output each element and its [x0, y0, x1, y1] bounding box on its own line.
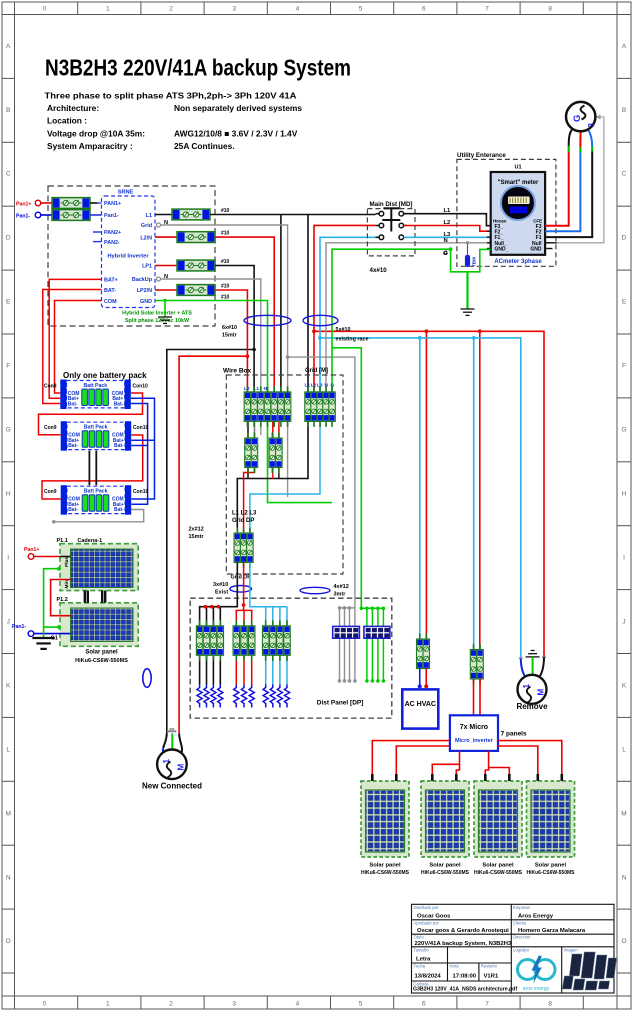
svg-text:C: C — [6, 171, 11, 178]
svg-text:Oscar Goos: Oscar Goos — [417, 914, 451, 920]
svg-text:Con9: Con9 — [44, 425, 57, 431]
svg-text:5: 5 — [359, 1001, 363, 1008]
svg-text:E: E — [622, 299, 627, 306]
svg-text:Tamaño: Tamaño — [414, 948, 430, 953]
svg-text:Dist Panel [DP]: Dist Panel [DP] — [317, 700, 364, 707]
svg-text:M: M — [621, 810, 626, 817]
svg-text:A: A — [622, 43, 627, 50]
svg-text:3: 3 — [232, 1001, 236, 1008]
svg-text:aros energy: aros energy — [523, 986, 550, 992]
svg-text:Location :: Location : — [47, 116, 87, 126]
svg-text:G: G — [572, 115, 583, 122]
svg-text:Solar panel: Solar panel — [369, 863, 401, 869]
svg-text:Exist: Exist — [215, 590, 228, 596]
svg-text:HiKu6-CS6W-550MS: HiKu6-CS6W-550MS — [361, 870, 410, 876]
svg-text:COM: COM — [104, 299, 117, 305]
svg-text:Min: Min — [64, 580, 70, 588]
svg-text:Diseñado por: Diseñado por — [414, 905, 440, 910]
svg-text:House: House — [493, 219, 507, 224]
svg-text:Oscar goos & Gerardo Arostequi: Oscar goos & Gerardo Arostequi — [417, 928, 509, 934]
svg-text:Logotipo: Logotipo — [513, 948, 530, 953]
svg-text:I: I — [7, 555, 9, 562]
svg-text:K: K — [6, 682, 11, 689]
svg-text:13/8/2024: 13/8/2024 — [415, 974, 442, 980]
svg-text:0: 0 — [43, 6, 47, 13]
svg-text:AC HVAC: AC HVAC — [405, 701, 436, 708]
svg-text:G1: G1 — [51, 636, 58, 642]
svg-text:Con9: Con9 — [44, 489, 57, 495]
svg-text:U1: U1 — [514, 165, 521, 171]
svg-text:PAN2-: PAN2- — [104, 240, 120, 246]
svg-text:7x Micro: 7x Micro — [460, 724, 488, 731]
svg-text:#10: #10 — [221, 231, 230, 237]
svg-text:L1: L1 — [444, 208, 452, 214]
svg-text:L: L — [622, 746, 626, 753]
svg-text:H: H — [622, 491, 627, 498]
svg-text:6: 6 — [422, 1001, 426, 1008]
svg-text:2: 2 — [169, 6, 173, 13]
svg-text:F: F — [622, 363, 626, 370]
svg-text:Pan1-: Pan1- — [104, 213, 119, 219]
svg-text:4x#10: 4x#10 — [370, 267, 388, 274]
svg-text:G: G — [6, 427, 11, 434]
svg-text:V1R1: V1R1 — [484, 974, 499, 980]
svg-text:Three phase to split phase ATS: Three phase to split phase ATS 3Ph,2ph->… — [45, 90, 297, 100]
svg-text:ACmeter 3phase: ACmeter 3phase — [494, 259, 542, 265]
svg-text:Pan1-: Pan1- — [16, 213, 30, 219]
svg-text:G3B2H3 120V_41A_NSDS architect: G3B2H3 120V_41A_NSDS architecture.pdf — [413, 987, 517, 993]
svg-text:1: 1 — [106, 1001, 110, 1008]
svg-text:Aprobado por: Aprobado por — [414, 921, 440, 926]
svg-text:N3B2H3 220V/41A backup System: N3B2H3 220V/41A backup System — [45, 55, 351, 81]
svg-text:Con10: Con10 — [133, 489, 149, 495]
svg-text:Solar panel: Solar panel — [85, 650, 118, 656]
svg-text:A: A — [6, 43, 11, 50]
svg-text:BackUp: BackUp — [132, 277, 153, 283]
svg-text:Aros Energy: Aros Energy — [518, 914, 554, 920]
svg-text:C: C — [622, 171, 627, 178]
svg-text:3mtr: 3mtr — [334, 592, 347, 598]
svg-text:Wire Box: Wire Box — [223, 368, 251, 375]
svg-text:2x#12: 2x#12 — [189, 527, 204, 533]
svg-text:4: 4 — [296, 1001, 300, 1008]
svg-text:Solar panel: Solar panel — [535, 863, 567, 869]
svg-text:4x#12: 4x#12 — [334, 584, 349, 590]
svg-text:System Amparacitry :: System Amparacitry : — [47, 141, 133, 151]
svg-text:L: L — [6, 746, 10, 753]
svg-text:O: O — [6, 938, 11, 945]
svg-text:Architecture:: Architecture: — [47, 103, 99, 113]
svg-text:LP1: LP1 — [142, 264, 152, 270]
svg-text:5x#10: 5x#10 — [336, 327, 351, 333]
svg-text:N: N — [444, 238, 448, 244]
svg-text:Plus: Plus — [64, 557, 70, 567]
svg-text:CFE: CFE — [533, 219, 542, 224]
svg-text:N: N — [622, 874, 627, 881]
svg-text:Con8: Con8 — [44, 384, 57, 390]
svg-text:3: 3 — [232, 6, 236, 13]
svg-text:4: 4 — [296, 6, 300, 13]
svg-text:H: H — [6, 491, 11, 498]
svg-text:Grid [M]: Grid [M] — [305, 368, 328, 374]
svg-text:7 panels: 7 panels — [501, 731, 527, 738]
svg-text:8: 8 — [548, 1001, 552, 1008]
svg-text:Remove: Remove — [516, 702, 548, 711]
svg-text:K: K — [622, 682, 627, 689]
svg-text:Cliente: Cliente — [513, 921, 527, 926]
svg-text:M: M — [5, 810, 10, 817]
svg-text:3x#10: 3x#10 — [213, 582, 228, 588]
svg-text:GND: GND — [140, 299, 152, 305]
svg-text:N: N — [6, 874, 11, 881]
svg-text:TBM: TBM — [472, 257, 477, 267]
svg-text:PAN2+: PAN2+ — [104, 230, 121, 236]
svg-text:Con10: Con10 — [133, 425, 149, 431]
svg-text:#10: #10 — [221, 295, 230, 301]
svg-text:Solar panel: Solar panel — [482, 863, 514, 869]
svg-text:Homero Garza Malacara: Homero Garza Malacara — [518, 928, 586, 934]
svg-text:Hora: Hora — [450, 964, 460, 969]
svg-text:L2: L2 — [444, 220, 451, 226]
svg-text:5: 5 — [359, 6, 363, 13]
svg-text:Grid: Grid — [141, 223, 152, 229]
svg-text:Hybrid Solar Inverter + ATS: Hybrid Solar Inverter + ATS — [122, 311, 192, 317]
svg-text:M: M — [177, 764, 186, 771]
svg-text:220V/41A backup System, N3B2H3: 220V/41A backup System, N3B2H3 — [415, 941, 512, 947]
svg-text:New Connected: New Connected — [142, 782, 202, 791]
svg-text:Direccion: Direccion — [513, 935, 531, 940]
svg-text:Imagen: Imagen — [564, 948, 579, 953]
svg-text:Cadena-1: Cadena-1 — [77, 538, 102, 544]
svg-text:1: 1 — [106, 6, 110, 13]
svg-text:Main Dist [MD]: Main Dist [MD] — [370, 201, 413, 208]
svg-text:J: J — [7, 618, 10, 625]
svg-text:Con10: Con10 — [133, 384, 149, 390]
svg-text:Only one battery pack: Only one battery pack — [63, 371, 147, 380]
svg-text:D: D — [6, 235, 11, 242]
svg-text:Grid DP: Grid DP — [231, 575, 252, 581]
svg-text:F: F — [6, 363, 10, 370]
svg-text:HiKu6-CS6W-550MS: HiKu6-CS6W-550MS — [421, 870, 470, 876]
svg-text:I: I — [623, 555, 625, 562]
svg-text:Hybrid Inverter: Hybrid Inverter — [107, 254, 149, 260]
svg-text:Grid DP: Grid DP — [232, 518, 254, 524]
svg-text:Letra: Letra — [416, 957, 431, 963]
svg-text:17:08:00: 17:08:00 — [453, 974, 477, 980]
svg-text:3: 3 — [587, 123, 596, 128]
svg-text:SRNE: SRNE — [118, 190, 134, 196]
svg-text:AWG12/10/8 ■ 3.6V / 2.3V / 1.4: AWG12/10/8 ■ 3.6V / 2.3V / 1.4V — [174, 129, 298, 139]
svg-text:Solar panel: Solar panel — [429, 863, 461, 869]
svg-text:#10: #10 — [221, 259, 230, 265]
svg-text:PAN1+: PAN1+ — [104, 201, 121, 207]
svg-text:HiKu6-CS6W-550MS: HiKu6-CS6W-550MS — [527, 870, 576, 876]
svg-text:L2/N: L2/N — [140, 235, 152, 241]
svg-text:L1: L1 — [146, 213, 152, 219]
svg-text:HiKu6-CS6W-550MS: HiKu6-CS6W-550MS — [75, 658, 128, 664]
svg-text:E: E — [6, 299, 11, 306]
svg-text:GND_: GND_ — [495, 247, 509, 253]
svg-text:G: G — [443, 251, 448, 257]
svg-text:15mtr: 15mtr — [222, 333, 238, 339]
svg-text:Utility Enterance: Utility Enterance — [457, 152, 506, 159]
svg-text:Titulo: Titulo — [414, 935, 425, 940]
svg-text:Non separately derived systems: Non separately derived systems — [174, 103, 302, 113]
svg-text:15mtr: 15mtr — [189, 534, 205, 540]
svg-text:Pan1-: Pan1- — [12, 624, 26, 630]
svg-text:Micro_inverter: Micro_inverter — [455, 738, 494, 744]
svg-text:M: M — [537, 689, 546, 696]
svg-text:Fecha: Fecha — [414, 964, 426, 969]
svg-text:25A Continues.: 25A Continues. — [174, 141, 235, 151]
svg-text:O: O — [621, 938, 626, 945]
svg-text:Pan1+: Pan1+ — [24, 547, 39, 553]
svg-text:Empresa: Empresa — [513, 905, 530, 910]
svg-text:J: J — [622, 618, 625, 625]
svg-text:7: 7 — [485, 1001, 489, 1008]
svg-text:BAT+: BAT+ — [104, 278, 118, 284]
svg-text:#10: #10 — [221, 208, 230, 214]
svg-text:Revisión: Revisión — [481, 964, 498, 969]
svg-text:BAT-: BAT- — [104, 288, 116, 294]
svg-text:6x#10: 6x#10 — [222, 325, 237, 331]
svg-text:GND: GND — [530, 247, 542, 253]
svg-text:B: B — [6, 107, 10, 114]
svg-text:Voltage drop @10A 35m:: Voltage drop @10A 35m: — [47, 129, 145, 139]
svg-text:Pan1+: Pan1+ — [16, 201, 31, 207]
svg-text:LP2/N: LP2/N — [137, 288, 152, 294]
svg-text:HiKu6-CS6W-550MS: HiKu6-CS6W-550MS — [474, 870, 523, 876]
svg-text:L1 L2 L3: L1 L2 L3 — [232, 511, 257, 517]
svg-text:G: G — [621, 427, 626, 434]
svg-text:D: D — [622, 235, 627, 242]
svg-text:8: 8 — [548, 6, 552, 13]
svg-text:7: 7 — [485, 6, 489, 13]
svg-text:existing race: existing race — [336, 337, 369, 343]
svg-text:0: 0 — [43, 1001, 47, 1008]
svg-text:Split phase 120Vac 10kW: Split phase 120Vac 10kW — [125, 318, 190, 324]
svg-text:2: 2 — [169, 1001, 173, 1008]
svg-text:#10: #10 — [221, 284, 230, 290]
svg-text:6: 6 — [422, 6, 426, 13]
svg-text:B: B — [622, 107, 626, 114]
